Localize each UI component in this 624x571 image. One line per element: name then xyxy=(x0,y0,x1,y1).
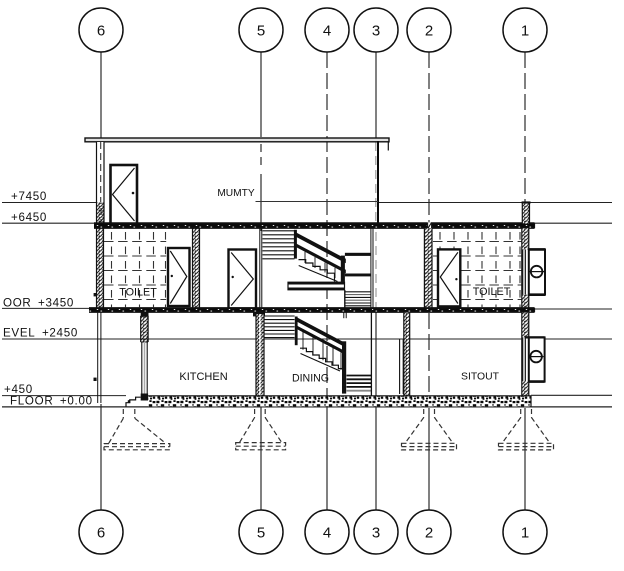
grid line 3 xyxy=(375,52,377,140)
first floor right wall xyxy=(522,228,529,308)
grid line 4 xyxy=(326,52,328,407)
roof slab xyxy=(94,222,535,229)
flight B balusters xyxy=(303,332,341,370)
circle 4 bottom xyxy=(305,510,349,554)
treads C below landing xyxy=(346,292,372,306)
fixture GF (pipe with coupling) xyxy=(525,337,545,381)
circle 3 top xyxy=(354,8,398,52)
overhang fascia lines xyxy=(98,313,101,403)
toilet-R tiles xyxy=(433,230,522,307)
flight A handrail xyxy=(295,232,346,264)
first floor left wall xyxy=(97,228,104,308)
fixture FF (pipe with coupling) xyxy=(529,249,545,294)
sitout door frame xyxy=(399,339,401,394)
circle 5 top xyxy=(239,8,283,52)
level mark FF xyxy=(94,293,97,296)
stairwell right wall GF xyxy=(370,309,372,396)
svg-text:TOILET: TOILET xyxy=(119,287,157,299)
level line +6450 xyxy=(2,222,94,224)
circle 2 top xyxy=(407,8,451,52)
flight B soffit xyxy=(301,354,341,372)
window in right wall FF xyxy=(522,249,524,294)
flight B newel xyxy=(342,341,346,393)
svg-text:6: 6 xyxy=(97,23,105,40)
flight A start post xyxy=(294,230,297,259)
newel line to floor xyxy=(344,290,346,309)
wall between toilet-L and hall xyxy=(193,228,200,308)
flight A newel xyxy=(341,256,345,282)
sill block xyxy=(141,394,148,401)
grid line 5 xyxy=(260,52,262,137)
flight B cut steps xyxy=(300,348,342,368)
GF stub post xyxy=(343,312,345,318)
svg-text:3: 3 xyxy=(372,525,380,542)
toilet-L tiles xyxy=(104,230,166,307)
flight A soffit xyxy=(299,266,338,282)
circle 4 top xyxy=(305,8,349,52)
beam at kitchen left wall xyxy=(141,312,149,317)
svg-text:FLOOR +0.00: FLOOR +0.00 xyxy=(10,395,93,408)
footing D xyxy=(499,409,554,450)
svg-text:KITCHEN: KITCHEN xyxy=(179,371,227,383)
circle 1 top xyxy=(503,8,547,52)
level line +450 xyxy=(2,395,126,397)
kitchen window xyxy=(141,342,143,394)
kitchen right wall xyxy=(256,314,264,396)
level mark GF xyxy=(94,378,97,381)
svg-text:5: 5 xyxy=(257,525,265,542)
flight D treads (face-on) xyxy=(265,316,295,338)
flight A balusters xyxy=(305,252,335,278)
stairwell left wall xyxy=(260,228,262,308)
footing C xyxy=(402,409,457,450)
circle 6 top xyxy=(79,8,123,52)
kitchen left wall xyxy=(141,316,148,401)
stair mid landing xyxy=(288,282,345,290)
svg-text:1: 1 xyxy=(521,23,529,40)
level line +3450 xyxy=(2,307,89,309)
slab joint at grid 2 xyxy=(427,222,432,229)
svg-text:EVEL +2450: EVEL +2450 xyxy=(3,327,78,340)
svg-text:6: 6 xyxy=(97,525,105,542)
svg-text:+7450: +7450 xyxy=(11,190,47,203)
grid line 2 xyxy=(428,52,430,224)
footing A xyxy=(104,409,170,450)
svg-text:OOR +3450: OOR +3450 xyxy=(3,297,74,310)
mumty left wall xyxy=(97,142,105,224)
svg-text:+6450: +6450 xyxy=(11,211,47,224)
circle 1 bottom xyxy=(503,510,547,554)
svg-text:TOILET: TOILET xyxy=(473,286,511,298)
flight B handrail xyxy=(296,317,346,348)
stairwell right wall FF xyxy=(370,228,372,308)
sitout left wall xyxy=(400,313,410,396)
entrance steps xyxy=(126,397,141,407)
sitout right wall xyxy=(522,313,529,396)
svg-text:DINING: DINING xyxy=(292,373,329,385)
svg-text:SITOUT: SITOUT xyxy=(461,372,500,383)
beam at kitchen right wall xyxy=(253,312,265,316)
circle 6 bottom xyxy=(79,510,123,554)
circle 2 bottom xyxy=(407,510,451,554)
mumty roof slab xyxy=(85,138,389,142)
footing B xyxy=(236,409,286,450)
flight A treads (face-on) xyxy=(263,231,295,259)
level line +7450 xyxy=(2,202,97,204)
svg-text:5: 5 xyxy=(257,23,265,40)
svg-text:4: 4 xyxy=(323,525,331,542)
flight A lower rail xyxy=(295,243,346,274)
level labels xyxy=(3,190,93,408)
svg-text:3: 3 xyxy=(372,23,380,40)
circle 3 bottom xyxy=(354,510,398,554)
flight B lower rail xyxy=(296,325,346,355)
first floor slab xyxy=(89,308,535,317)
circle 5 bottom xyxy=(239,510,283,554)
mumty right wall xyxy=(377,141,379,224)
toilet-L door xyxy=(168,248,190,306)
toilet-R left wall (grid 2) xyxy=(424,228,432,308)
parapet wall at grid 1 xyxy=(522,201,531,223)
mumty door xyxy=(111,165,138,224)
flight A cut steps xyxy=(299,260,335,282)
svg-text:4: 4 xyxy=(323,23,331,40)
flight B start post xyxy=(295,317,298,346)
plinth slab xyxy=(148,396,531,407)
grid line 1 xyxy=(524,52,526,202)
level line +-0.00 xyxy=(2,406,612,408)
level line +2450 xyxy=(2,338,612,340)
grid line 6 xyxy=(100,52,102,140)
svg-text:1: 1 xyxy=(521,525,529,542)
toilet-R door xyxy=(438,249,460,306)
window in right wall GF xyxy=(522,337,524,381)
svg-text:2: 2 xyxy=(425,23,433,40)
hall door xyxy=(229,250,257,309)
treads E at floor xyxy=(347,376,372,391)
svg-text:MUMTY: MUMTY xyxy=(217,188,255,199)
svg-text:2: 2 xyxy=(425,525,433,542)
landing guard rails xyxy=(345,253,371,256)
